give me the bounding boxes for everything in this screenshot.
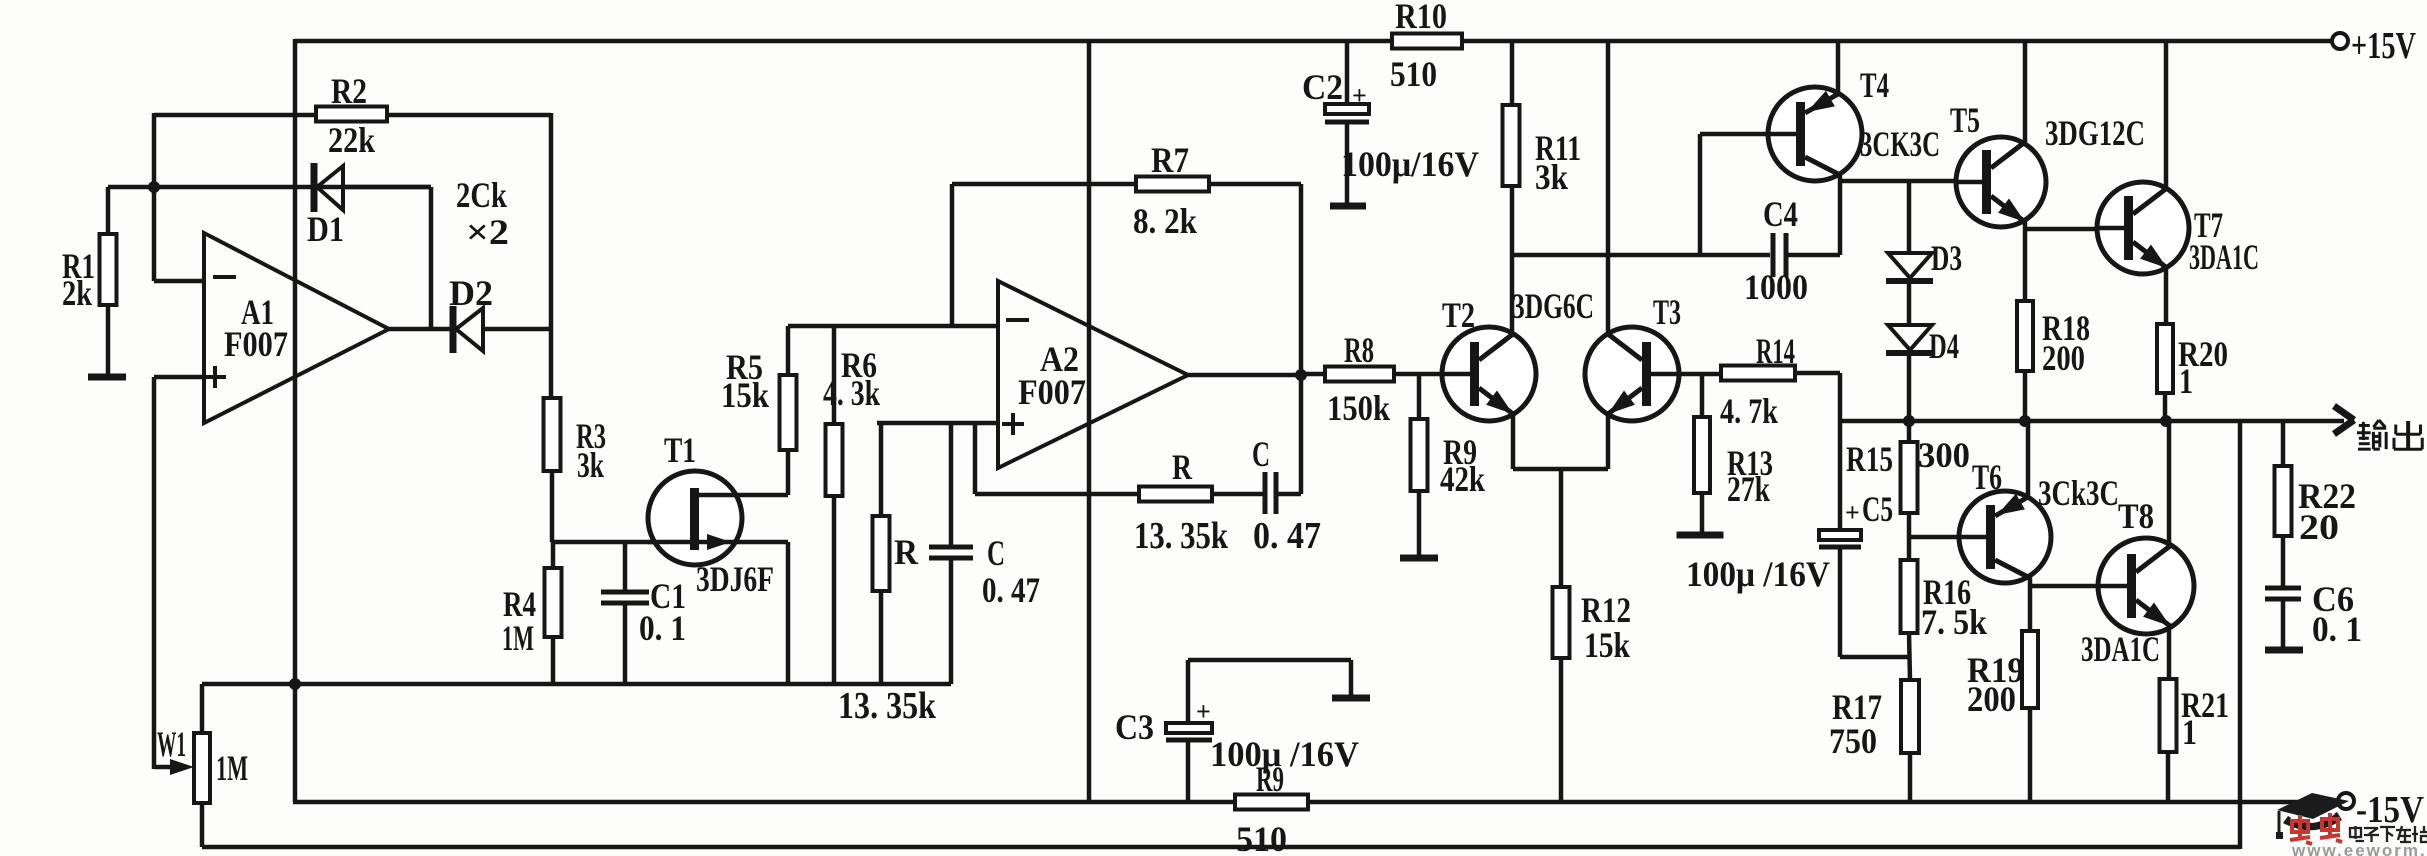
wire R3-R4 gate node [550,471,555,542]
transistor T5 3DG12C [2023,41,2028,146]
svg-text:200: 200 [1967,679,2016,719]
svg-text:100μ/16V: 100μ/16V [1341,144,1479,184]
svg-text:R15: R15 [1846,439,1893,479]
resistor R7 8.2k [1136,177,1209,192]
resistor R 13.35k series (Wien) [1139,487,1212,502]
svg-text:0. 1: 0. 1 [2312,609,2362,649]
svg-text:C4: C4 [1763,194,1798,234]
svg-text:C3: C3 [1115,707,1154,747]
resistor R9 42k stem [1417,374,1422,419]
watermark chong-chong red characters [2290,815,2312,844]
svg-text:15k: 15k [1584,625,1630,665]
wire R7 left stem [950,184,955,326]
svg-text:1M: 1M [216,748,248,788]
wire A2 minus input row (y=326) [788,324,998,329]
resistor R22 20 stem [2281,421,2286,466]
svg-text:+15V: +15V [2351,25,2416,67]
svg-text:T6: T6 [1972,457,2002,497]
svg-text:22k: 22k [328,120,375,160]
svg-text:W1: W1 [157,724,186,764]
resistor R19 200 [2022,631,2038,708]
capacitor C 0.47 series (Wien) [1263,472,1268,514]
op-amp A1 F007 [204,233,389,423]
resistor R22 20 [2275,466,2292,536]
svg-text:0. 47: 0. 47 [1253,515,1321,557]
svg-text:2Ck: 2Ck [456,175,507,215]
svg-text:T2: T2 [1442,295,1475,335]
resistor R5 15k [786,326,791,375]
svg-text:R2: R2 [331,71,367,111]
wire +15V top rail [295,39,2333,44]
svg-text:200: 200 [2042,338,2085,378]
svg-text:100μ /16V: 100μ /16V [1686,554,1830,594]
svg-text:R10: R10 [1395,0,1447,36]
wire T2 emitter drop [1511,412,1516,469]
svg-text:F007: F007 [224,324,288,364]
wire T8 emitter drop to R21 [2167,626,2172,679]
wire bottom return line (y=847) [202,845,2240,850]
wire T7 emitter drop to R20 [2164,266,2169,324]
wire output-to-bottom-return drop (x=2240) [2238,421,2243,849]
wire T4 base drop (x=1700) [1698,134,1703,255]
node A1 inverting junction dot [148,181,160,193]
ground below R1 [106,305,111,377]
wire T4 collector to T5 base row (y=181) [1840,179,1983,184]
svg-text:D1: D1 [307,209,344,249]
transistor T8 3DA1C [2167,421,2172,547]
wire D2/R2 node vertical (x=551) [549,113,554,398]
resistor R15 300 [1907,421,1912,442]
resistor R16 7.5k [1901,560,1918,633]
svg-text:3CK3C: 3CK3C [1860,124,1940,164]
svg-text:3k: 3k [577,445,604,485]
svg-text:-15V: -15V [2356,789,2424,831]
svg-text:0. 1: 0. 1 [639,608,686,648]
svg-text:C: C [987,533,1005,573]
svg-text:13. 35k: 13. 35k [1134,515,1229,557]
svg-text:C: C [1252,434,1270,474]
svg-text:3DG12C: 3DG12C [2045,113,2145,153]
transistor T6 3Ck3C (PNP) [2026,421,2031,498]
resistor R18 200 [2017,301,2033,371]
svg-text:T4: T4 [1860,65,1889,105]
wire A1 output (y=329) [389,327,452,332]
svg-text:T3: T3 [1653,292,1681,332]
svg-text:T5: T5 [1950,100,1980,140]
svg-text:+: + [1845,498,1860,527]
svg-text:T1: T1 [664,430,696,470]
svg-text:F007: F007 [1018,372,1086,412]
resistor R10 510 (+15V rail) [1392,34,1462,49]
watermark site name characters [2350,826,2364,841]
diode D1 (2Ck) [311,163,318,212]
op-amp A2 F007 [998,281,1188,468]
wire W1 wiper arm + arrowhead [154,765,178,770]
resistor R2 22k feedback wire [154,113,551,118]
capacitor C1 0.1 gate filter [623,542,628,592]
resistor R20 1 [2157,324,2173,393]
svg-text:4. 3k: 4. 3k [823,373,880,413]
resistor R13 27k [1694,417,1710,493]
svg-text:R9: R9 [1256,759,1284,799]
svg-text:D2: D2 [449,273,493,313]
resistor R13 27k stem [1700,374,1705,417]
wire T5 emitter drop to R18 [2023,221,2028,301]
svg-text:510: 510 [1390,54,1437,94]
svg-text:27k: 27k [1727,469,1770,509]
wire T3 emitter drop [1606,412,1611,469]
svg-text:R7: R7 [1151,140,1189,180]
svg-text:3k: 3k [1535,157,1568,197]
wire A1 plus input from W1 wiper [154,375,204,380]
capacitor C5 100u/16V [1819,530,1861,540]
output arrowhead (open chevron) [2334,406,2354,420]
ground below C2 [1330,203,1366,210]
resistor R1 2k [100,234,117,305]
svg-text:100μ /16V: 100μ /16V [1210,734,1359,774]
svg-text:4. 7k: 4. 7k [1720,391,1778,431]
resistor R17 750 [1901,680,1919,753]
capacitor C4 1000 [1771,233,1776,277]
svg-text:3DA1C: 3DA1C [2189,237,2259,277]
resistor R11 3k [1503,105,1520,186]
wire T1 source to ground rail [786,542,791,684]
capacitor C6 0.1 [2281,536,2286,588]
svg-text:2k: 2k [62,273,92,313]
capacitor C 0.47 parallel (Wien) [949,423,954,547]
diode D3 [1888,253,1932,278]
wire signal ground rail (y=684) [202,682,951,687]
resistor R9 510 (-15V rail) [1235,795,1308,810]
diode D4 [1888,325,1932,350]
wire output rail (y=421) [1840,419,2344,424]
resistor R12 15k [1553,587,1570,658]
svg-text:8. 2k: 8. 2k [1133,201,1197,241]
wire shared emitter rail (y=469) [1513,467,1608,472]
svg-text:1000: 1000 [1744,267,1808,307]
transistor T4 3CK3C (PNP) [1836,41,1841,95]
wire A1 minus input [154,279,204,284]
svg-text:42k: 42k [1440,459,1485,499]
wire series RC stem from plus input [973,423,978,494]
transistor T1 3DJ6F JFET [648,471,742,565]
transistor T7 3DA1C [2164,41,2169,190]
wire D4 to output rail [1907,353,1912,421]
resistor R2 22k [316,107,387,122]
ground below C6 [2265,647,2303,654]
wire T3 collector drop (x=1609) [1606,41,1611,335]
svg-text:3DA1C: 3DA1C [2081,629,2160,669]
svg-text:T8: T8 [2118,496,2154,536]
svg-text:×2: ×2 [466,212,509,252]
svg-text:+: + [1352,81,1367,110]
wire R11 / T2 collector drop (x=1512) [1510,41,1515,335]
svg-text:1: 1 [2182,712,2197,752]
resistor R3 3k [544,398,561,471]
svg-text:15k: 15k [721,375,769,415]
svg-text:D4: D4 [1929,326,1959,366]
resistor R21 1 [2160,679,2177,752]
svg-text:13. 35k: 13. 35k [838,685,937,727]
wire D1 to output drop (x=431) [429,187,434,329]
wire D1 row (y=187) [108,185,431,190]
node A2 output junction dot [1295,369,1307,381]
wire A2 output [1188,373,1301,378]
wire C4 to T4 collector (x=1840) [1838,174,1843,255]
svg-text:R: R [1172,447,1193,487]
resistor R6 4.3k [832,326,837,424]
svg-text:R12: R12 [1581,590,1631,630]
wire T5 emitter to T7 base (y=229) [2025,227,2123,232]
ground for C3 [1332,695,1370,702]
resistor R4 1M [551,542,556,568]
svg-text:R14: R14 [1756,331,1795,371]
+15V terminal [2332,33,2348,49]
transistor T2 3DG6C [1442,327,1536,421]
wire R14 to C5 drop (x=1840) [1795,371,1840,376]
wire inverting node vertical (x=154) [152,113,157,281]
svg-text:150k: 150k [1327,388,1390,428]
svg-text:C5: C5 [1862,489,1893,529]
node output junction dots [1903,415,1915,427]
wire -15V bottom rail [293,800,2339,805]
transistor T3 3DG6C (mirrored) [1585,327,1679,421]
ground below R9 [1417,491,1422,558]
svg-text:510: 510 [1236,819,1287,856]
svg-text:3DJ6F: 3DJ6F [696,559,774,599]
wire A1/A2 left power drop (x=295) [293,39,298,802]
svg-text:D3: D3 [1931,238,1962,278]
resistor R parallel (Wien) [879,423,884,516]
resistor R14 4.7k [1721,366,1795,381]
svg-text:C2: C2 [1302,67,1343,107]
svg-text:1M: 1M [502,618,534,658]
watermark eeworm logo [2276,793,2349,839]
wire A2 output node vertical (x=1301) [1299,184,1304,494]
wire T6 collector node [2028,577,2033,631]
diodes D3/D4 stem [1907,181,1912,253]
label output (Chinese) [2359,424,2370,427]
svg-text:300: 300 [1918,435,1970,475]
wire series RC feedback row (y=494) [975,492,1265,497]
svg-text:3Ck3C: 3Ck3C [2038,473,2119,513]
wire T2-collector to C4 row (y=255) [1512,253,1770,258]
potentiometer W1 1M [200,684,205,733]
resistor R9 42k [1411,419,1428,491]
wire T6 collector to T8 base (y=586) [2030,584,2127,589]
node junction dot lower-left ground rail [289,678,301,690]
wire T6 base row (y=537) [1909,535,1986,540]
svg-text:3DG6C: 3DG6C [1512,286,1594,326]
svg-text:www.eeworm.com: www.eeworm.com [2291,841,2427,856]
resistor R1 2k stem [106,187,111,234]
wire T1 drain to R5 [786,450,791,495]
resistor R7 8.2k top feedback wire [952,182,1301,187]
wire T4 base to left (y=134) [1700,132,1768,137]
wire A2 plus input row (y=423) [877,421,998,426]
capacitor C3 100u/16V [1186,740,1191,802]
wire C3 plus lead to ground [1188,658,1351,663]
wire A2 power drop (x=1089) [1087,41,1092,802]
resistor R12 15k stem [1559,469,1564,587]
svg-text:R8: R8 [1344,330,1374,370]
wire R15/R16 junction [1907,513,1912,560]
diode D2 (2Ck) [450,306,457,353]
svg-text:7. 5k: 7. 5k [1921,602,1987,642]
svg-text:0. 47: 0. 47 [982,570,1040,610]
-15V terminal [2338,793,2354,809]
svg-text:+: + [1196,697,1211,726]
svg-text:1: 1 [2179,361,2193,401]
capacitor C2 100u/16V [1345,41,1350,104]
ground below R13 [1700,493,1705,535]
svg-text:750: 750 [1829,721,1877,761]
svg-text:20: 20 [2299,507,2339,547]
svg-text:R: R [894,532,919,572]
resistor R8 150k [1301,372,1325,377]
